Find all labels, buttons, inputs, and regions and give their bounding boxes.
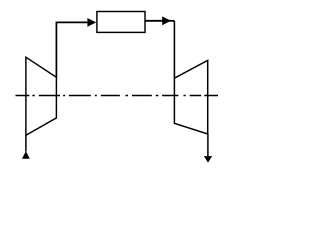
arrowhead toward turbine drop — [162, 16, 171, 25]
wire combustor to turbine (horizontal) — [145, 20, 174, 22]
inlet line (bottom left) — [25, 135, 27, 151]
combustor (top rectangle) — [97, 12, 145, 33]
exhaust arrow (down) — [204, 156, 212, 163]
shaft centerline (dash-dot) — [16, 95, 219, 97]
turbine (right trapezoid) — [174, 60, 207, 134]
compressor (left trapezoid) — [26, 57, 57, 135]
wire compressor to combustor — [56, 22, 88, 77]
exhaust line (bottom right) — [207, 134, 209, 156]
wire down into turbine — [173, 21, 175, 78]
arrowhead into combustor — [87, 18, 96, 27]
inlet arrow (up) — [22, 151, 30, 159]
